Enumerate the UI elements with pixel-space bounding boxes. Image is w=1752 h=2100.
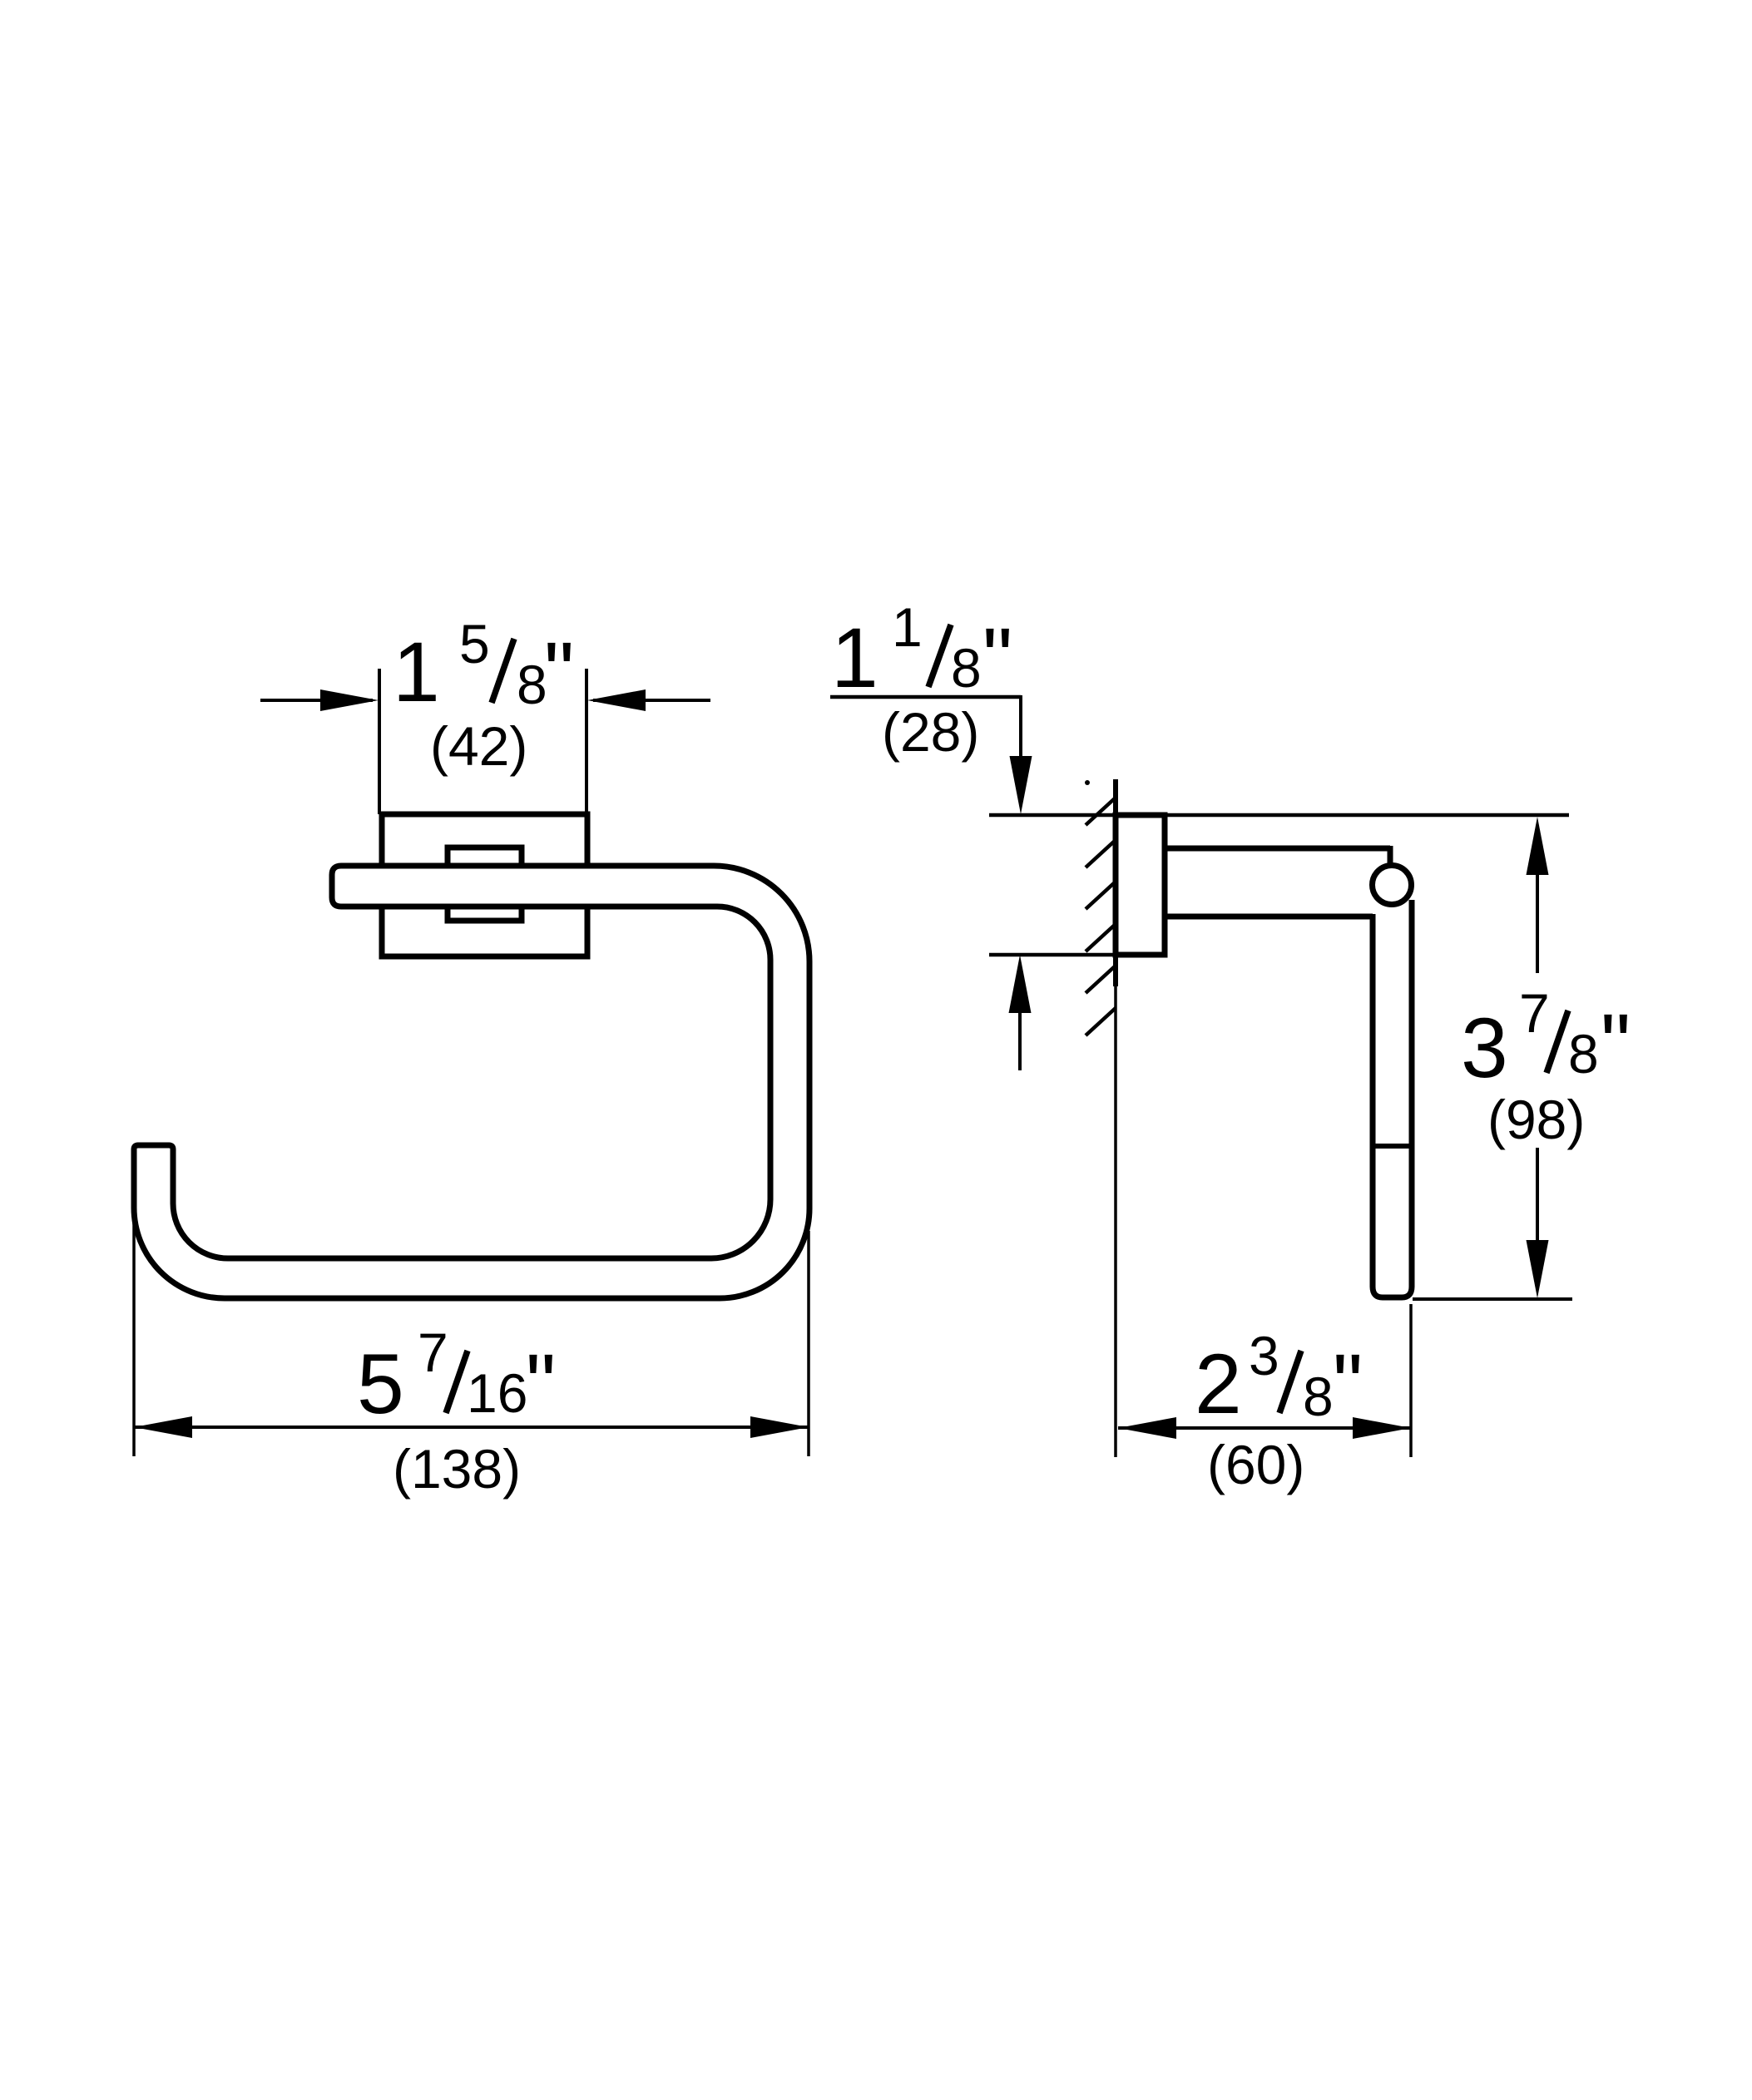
wall hatch 2 bbox=[1086, 840, 1116, 867]
pivot circle side view bbox=[1373, 866, 1412, 905]
svg-text:7: 7 bbox=[1519, 982, 1550, 1044]
arm side view bbox=[1162, 846, 1390, 852]
dim 42 arrow right bbox=[593, 699, 710, 702]
svg-text:3: 3 bbox=[1249, 1325, 1279, 1386]
wall hatch 1 bbox=[1086, 798, 1116, 825]
svg-text:": " bbox=[982, 610, 1012, 705]
svg-text:(138): (138) bbox=[393, 1438, 521, 1500]
svg-text:2: 2 bbox=[1195, 1337, 1242, 1431]
wall hatch 4 bbox=[1086, 924, 1116, 951]
svg-text:1: 1 bbox=[393, 625, 440, 719]
wall plate side view bbox=[1116, 815, 1165, 955]
svg-text:1: 1 bbox=[892, 596, 923, 658]
svg-text:": " bbox=[544, 625, 574, 719]
wall dot bbox=[1085, 780, 1090, 785]
wall plate front view bbox=[382, 814, 587, 956]
svg-text:": " bbox=[1333, 1337, 1363, 1431]
ring bar side view bbox=[1373, 900, 1412, 1297]
wall hatch 3 bbox=[1086, 882, 1116, 909]
dim 60 extension line right bbox=[1409, 1304, 1413, 1457]
svg-text:8: 8 bbox=[517, 654, 547, 715]
svg-text:(98): (98) bbox=[1487, 1089, 1585, 1150]
top reference line bbox=[989, 813, 1569, 818]
svg-text:16: 16 bbox=[467, 1362, 527, 1424]
dim 138 extension line left bbox=[132, 1214, 136, 1456]
wall hatch 6 bbox=[1086, 1008, 1116, 1035]
dim 42 extension line right bbox=[585, 669, 588, 814]
svg-text:8: 8 bbox=[1568, 1023, 1599, 1085]
svg-text:5: 5 bbox=[357, 1337, 404, 1431]
dim 28 leader bbox=[830, 695, 1021, 699]
svg-text:": " bbox=[526, 1337, 556, 1431]
dim 60 arrow line bbox=[1118, 1426, 1411, 1430]
ring bar end tick bbox=[1373, 1144, 1413, 1149]
lower reference line bbox=[989, 953, 1113, 957]
dim 138 extension line right bbox=[807, 1231, 810, 1456]
dim 28 up arrow bbox=[1018, 1006, 1022, 1070]
dim 98 line bbox=[1536, 874, 1539, 973]
dim 42 extension line left bbox=[378, 669, 381, 814]
svg-text:(42): (42) bbox=[430, 715, 527, 777]
svg-text:7: 7 bbox=[418, 1322, 448, 1383]
screw cover plate front view bbox=[448, 847, 522, 921]
svg-text:(28): (28) bbox=[882, 701, 979, 763]
svg-text:1: 1 bbox=[831, 610, 878, 705]
dim 98 bottom line bbox=[1413, 1297, 1572, 1301]
dim 42 arrow left bbox=[260, 699, 373, 702]
svg-text:8: 8 bbox=[1303, 1366, 1334, 1427]
wall line bbox=[1113, 779, 1118, 986]
svg-text:(60): (60) bbox=[1207, 1434, 1304, 1495]
svg-text:": " bbox=[1601, 996, 1631, 1091]
svg-text:5: 5 bbox=[459, 613, 490, 674]
dim 138 arrow line bbox=[134, 1426, 809, 1429]
wall hatch 5 bbox=[1086, 966, 1116, 993]
svg-text:3: 3 bbox=[1461, 1001, 1508, 1095]
holder ring front view bbox=[134, 866, 809, 1298]
svg-text:8: 8 bbox=[951, 637, 982, 699]
